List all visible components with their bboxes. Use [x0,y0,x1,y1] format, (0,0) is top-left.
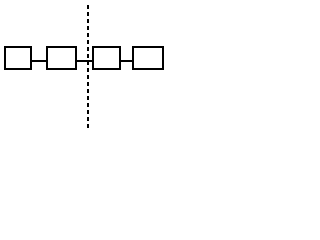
wire block1-block2 [32,60,46,62]
block 2 [47,47,76,69]
block 3 [93,47,120,69]
wire block2-block3 [77,60,92,62]
dashed divider line [87,5,89,128]
wire block3-block4 [121,60,132,62]
block 1 [5,47,31,69]
block 4 [133,47,163,69]
